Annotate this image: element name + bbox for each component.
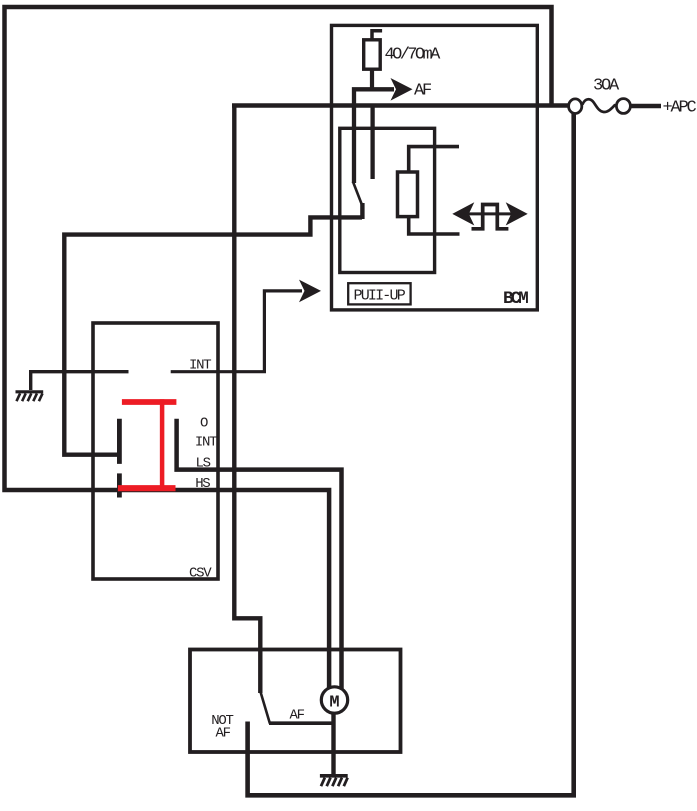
wire: INT contact to pull-up arrow <box>171 291 302 372</box>
pull-up resistor bottom lead <box>409 217 460 235</box>
pull-up resistor top lead <box>409 147 459 172</box>
resistor 40/70mA leads <box>372 31 382 41</box>
ground G1 wire + stem <box>31 372 129 390</box>
svg-text:3OA: 3OA <box>593 77 620 96</box>
svg-text:CSV: CSV <box>189 566 212 582</box>
wire: +APC fuse feed line <box>232 103 568 108</box>
ground G2 hatches <box>321 778 348 787</box>
svg-text:AF: AF <box>290 708 305 724</box>
svg-text:M: M <box>329 694 339 713</box>
fuse 30A terminal circle left <box>569 99 582 114</box>
ground G2 bar <box>320 774 348 778</box>
pulse signal double arrow: left arrowhead <box>452 202 474 225</box>
svg-text:HS: HS <box>195 476 210 492</box>
AF/NOT-AF switch arm diagonal <box>260 692 270 724</box>
CSV box <box>93 323 218 579</box>
BCM box <box>332 25 538 310</box>
wire: BCM switch output to CSV contact <box>64 217 362 454</box>
svg-text:AF: AF <box>216 725 231 741</box>
wire: LS contact bar + LS line down to motor <box>177 419 342 694</box>
svg-text:+APC: +APC <box>663 99 697 118</box>
wire: NOT AF contact to +APC bottom return <box>248 111 574 795</box>
wire: AF sense line with arrow <box>354 89 394 183</box>
arrowhead AF <box>391 78 413 101</box>
svg-text:INT: INT <box>195 434 217 450</box>
wiper red bottom bar <box>118 485 176 491</box>
fuse 30A terminal circle right <box>616 99 630 114</box>
pulse signal shaft <box>467 212 513 215</box>
wire: AF contact to motor <box>269 721 334 725</box>
svg-text:O: O <box>200 416 208 432</box>
pull-up inner box <box>340 128 435 272</box>
wire: +APC lead <box>631 104 662 108</box>
motor bottom lead <box>331 712 335 775</box>
wiper red stem <box>160 399 165 488</box>
motor circle <box>321 687 347 713</box>
BCM switch contact stub <box>360 203 364 219</box>
svg-text:LS: LS <box>196 456 211 472</box>
PULL-UP label box <box>348 283 410 304</box>
pull-up resistor body <box>398 172 418 217</box>
ground G1 bar <box>16 390 44 393</box>
svg-text:4O/7OmA: 4O/7OmA <box>385 46 442 65</box>
resistor 40/70mA body <box>364 40 381 69</box>
contact bar left lower <box>117 473 122 497</box>
ground G1 hatches <box>17 393 43 401</box>
contact bar left upper <box>117 419 122 464</box>
wire: BCM output down to wiper relay switch arm <box>234 106 260 694</box>
wire: HS net outer loop (left border, top border, down to fuse line) <box>5 7 552 694</box>
svg-text:PUII-UP: PUII-UP <box>354 288 406 305</box>
arrowhead to PULL-UP <box>299 280 321 303</box>
svg-text:AF: AF <box>414 82 431 101</box>
fuse 30A element squiggle <box>583 99 615 112</box>
svg-text:INT: INT <box>189 358 211 374</box>
motor box <box>190 650 401 753</box>
wire: stub from fuse line into pull-up box <box>370 106 374 180</box>
pulse signal square wave <box>472 205 509 229</box>
BCM switch arm (diagonal) <box>353 182 363 207</box>
wiper red top bar <box>122 399 176 405</box>
pulse signal right arrowhead <box>506 202 528 225</box>
svg-text:BCM: BCM <box>503 289 528 309</box>
